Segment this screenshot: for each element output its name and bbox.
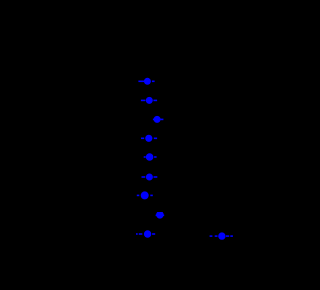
data point 3 marker — [154, 116, 161, 123]
data point 1 error bar right dash — [152, 81, 155, 83]
data point 2 marker — [146, 97, 153, 104]
data point 8 error bar right nub — [162, 215, 165, 217]
data point 10 error bar right dash a — [226, 235, 229, 237]
data point 2 error bar right dash — [153, 100, 157, 102]
data point 7 error bar left dash — [137, 195, 140, 197]
data point 9 error bar right dash — [152, 233, 155, 235]
data point 5 error bar left nub — [144, 156, 146, 158]
data point 10 error bar left dash a — [210, 235, 213, 237]
data point 9 marker — [144, 230, 151, 237]
data point 6 marker — [146, 174, 153, 181]
data point 3 error bar left nub — [153, 119, 154, 121]
data point 4 error bar right dash — [154, 138, 157, 140]
data point 10 marker — [218, 232, 225, 239]
data point 10 error bar right dash b — [230, 235, 233, 237]
data point 6 error bar left dash — [142, 176, 146, 178]
data point 5 error bar right nub — [154, 156, 157, 158]
data point 8 error bar left nub — [156, 215, 157, 217]
data point 10 error bar left dash b — [215, 235, 218, 237]
data point 1 marker — [144, 78, 151, 85]
data point 9 error bar left dash b — [139, 233, 143, 235]
data point 4 marker — [145, 135, 152, 142]
data point 5 marker — [146, 153, 154, 161]
data point 7 error bar right dash — [150, 195, 153, 197]
data point 8 marker (flat-topped circle) — [156, 211, 164, 219]
data point 4 error bar left dash — [141, 138, 144, 140]
data point 2 error bar left dash — [141, 100, 146, 102]
data point 9 error bar left dash a — [136, 233, 138, 235]
data point 6 error bar right dash — [154, 176, 158, 178]
data point 1 error bar left — [138, 81, 144, 83]
data point 3 error bar right dash — [160, 119, 163, 121]
data point 7 marker — [141, 191, 149, 199]
